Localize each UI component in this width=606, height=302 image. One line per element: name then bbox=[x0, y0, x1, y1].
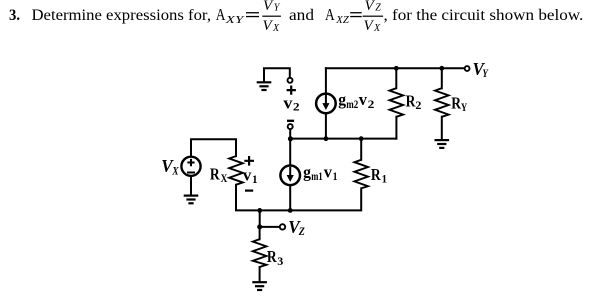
svg-text:1: 1 bbox=[382, 172, 387, 186]
wire v2 lower terminal to gm1 top bbox=[289, 130, 291, 165]
label v2 terminal plus bbox=[287, 86, 296, 95]
svg-text:1: 1 bbox=[252, 172, 258, 186]
svg-text:R: R bbox=[267, 247, 277, 266]
svg-text:g: g bbox=[338, 90, 346, 109]
wire Vx bottom to ground bbox=[190, 176, 192, 194]
wire R3 top lead bbox=[259, 227, 261, 239]
svg-text:XZ: XZ bbox=[335, 14, 349, 26]
wire R2 leads bbox=[395, 68, 397, 138]
svg-text:R: R bbox=[210, 165, 220, 184]
svg-text:v: v bbox=[283, 93, 293, 112]
svg-text:g: g bbox=[303, 162, 311, 181]
svg-text:1: 1 bbox=[333, 169, 338, 183]
svg-text:V: V bbox=[364, 18, 375, 34]
ground below VX bbox=[184, 196, 199, 204]
svg-text:m2: m2 bbox=[346, 97, 358, 111]
svg-text:X: X bbox=[172, 163, 180, 177]
svg-text:Y: Y bbox=[461, 100, 468, 114]
svg-text:Z: Z bbox=[375, 2, 381, 13]
label v2 terminal minus bbox=[287, 120, 294, 122]
svg-text:m1: m1 bbox=[311, 169, 322, 183]
svg-text:and: and bbox=[289, 7, 314, 24]
svg-text:X: X bbox=[272, 23, 280, 34]
junction R1 top on mid rail bbox=[359, 136, 364, 141]
junction gm2 bottom on mid rail bbox=[324, 136, 329, 141]
svg-text:v: v bbox=[243, 166, 252, 185]
svg-text:, for the circuit shown below.: , for the circuit shown below. bbox=[384, 7, 584, 24]
wire v2 upper terminal to ground bbox=[264, 68, 290, 81]
wire gm2 top lead bbox=[325, 68, 327, 92]
resistor RY bbox=[435, 88, 449, 117]
wire R1 top lead bbox=[360, 139, 362, 160]
svg-text:V: V bbox=[365, 0, 376, 14]
ground below RY bbox=[435, 140, 450, 148]
wire bottom rail bbox=[236, 185, 361, 211]
svg-text:V: V bbox=[263, 18, 274, 34]
terminal v2 upper bbox=[288, 78, 293, 83]
svg-text:R: R bbox=[371, 165, 381, 184]
current source gm2v2 bbox=[316, 94, 336, 114]
resistor R2 bbox=[390, 88, 404, 117]
svg-text:X: X bbox=[373, 23, 381, 34]
junction RY top on top rail bbox=[439, 66, 444, 71]
svg-text:3: 3 bbox=[277, 254, 283, 268]
svg-text:XY: XY bbox=[224, 14, 245, 26]
svg-text:Z: Z bbox=[298, 224, 305, 238]
junction v2/gm1 on mid rail bbox=[288, 136, 293, 141]
svg-text:2: 2 bbox=[368, 97, 375, 111]
svg-text:Y: Y bbox=[482, 66, 489, 80]
resistor RX bbox=[229, 156, 243, 185]
svg-text:v: v bbox=[359, 90, 368, 109]
svg-text:A: A bbox=[325, 5, 335, 24]
svg-text:2: 2 bbox=[293, 100, 300, 114]
title text bbox=[9, 0, 583, 34]
ground below R3 bbox=[252, 282, 267, 290]
wire Ry leads bbox=[441, 68, 443, 139]
node VZ junction bbox=[257, 224, 262, 229]
source VX bbox=[181, 157, 200, 176]
terminal VZ bbox=[280, 224, 285, 229]
wire gm2 bottom lead bbox=[325, 115, 327, 139]
resistor R1 bbox=[354, 160, 368, 189]
svg-text:Y: Y bbox=[274, 2, 281, 13]
wire Vz branch down bbox=[259, 210, 261, 227]
svg-text:X: X bbox=[221, 171, 228, 185]
resistor R3 bbox=[253, 239, 267, 267]
svg-text:A: A bbox=[216, 5, 226, 24]
svg-text:3.: 3. bbox=[9, 7, 20, 24]
ground v2 top bbox=[257, 82, 272, 90]
junction gm1 bottom on bottom rail bbox=[288, 208, 293, 213]
svg-text:Determine expressions for,: Determine expressions for, bbox=[32, 7, 212, 24]
wire gm1 bottom bbox=[289, 186, 291, 210]
terminal VY bbox=[465, 66, 470, 71]
wire top rail bbox=[326, 67, 464, 69]
junction Vz branch on bottom rail bbox=[257, 208, 262, 213]
terminal v2 lower bbox=[288, 124, 293, 129]
wire R3 bottom lead bbox=[259, 267, 261, 281]
current source gm1v1 bbox=[280, 166, 300, 186]
label plus v1 bbox=[244, 156, 254, 166]
svg-text:v: v bbox=[324, 162, 333, 181]
svg-text:V: V bbox=[263, 0, 274, 14]
junction R2 top on top rail bbox=[394, 66, 399, 71]
svg-text:2: 2 bbox=[415, 98, 421, 112]
wire mid rail bbox=[290, 138, 396, 140]
wire Vz tap right bbox=[260, 226, 280, 228]
label minus v1 bbox=[245, 190, 253, 192]
wire Vx-top to Rx-top bbox=[191, 139, 236, 156]
